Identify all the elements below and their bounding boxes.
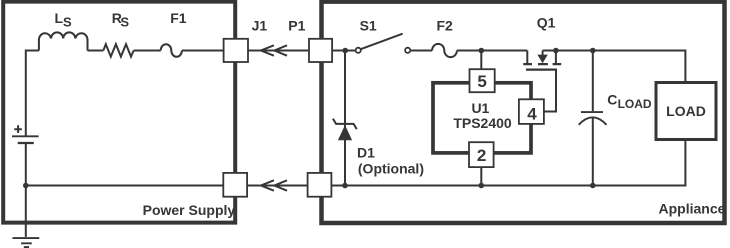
svg-text:F2: F2 — [437, 18, 454, 34]
connector J1 bottom box — [223, 173, 247, 197]
junction dot Q1 drain — [553, 48, 559, 54]
svg-text:Power Supply: Power Supply — [143, 202, 236, 218]
wire F2 to Q1 — [457, 50, 527, 52]
connector P1 bottom box — [308, 173, 332, 197]
svg-text:LOAD: LOAD — [618, 97, 652, 111]
top rail Q1 to LOAD — [543, 51, 686, 82]
svg-text:P1: P1 — [288, 18, 305, 34]
wire S1 to F2 — [410, 50, 432, 52]
svg-text:2: 2 — [477, 146, 486, 165]
transistor Q1 gate bar — [526, 68, 557, 70]
junction dot D1 bottom — [342, 183, 348, 189]
wire LS to RS — [88, 50, 104, 52]
transistor Q1 drain lead — [555, 51, 557, 64]
resistor RS — [103, 44, 133, 56]
svg-text:S1: S1 — [360, 18, 377, 34]
Power Supply enclosure — [3, 2, 235, 223]
junction dot pin5 branch — [479, 48, 485, 54]
junction dot CLOAD top — [590, 48, 596, 54]
svg-text:LOAD: LOAD — [666, 103, 706, 119]
wire top rail to CLOAD — [592, 51, 594, 112]
transistor Q1 source lead — [526, 51, 528, 64]
Appliance enclosure — [322, 2, 725, 223]
wire battery to ground — [25, 143, 27, 237]
junction dot battery bottom — [23, 183, 29, 189]
capacitor CLOAD top plate — [581, 111, 603, 113]
svg-text:F1: F1 — [170, 10, 187, 26]
connector J1 top box — [224, 39, 248, 62]
wire gate to pin 4 — [544, 70, 556, 112]
svg-text:Q1: Q1 — [537, 14, 556, 30]
ground — [13, 238, 40, 247]
battery positive plate — [12, 135, 39, 137]
fuse F1 — [161, 44, 182, 57]
wire RS to F1 — [134, 50, 161, 52]
LOAD box — [656, 83, 716, 140]
wire CLOAD to bottom rail — [592, 118, 594, 186]
pin 2 box — [469, 142, 494, 167]
junction dot D1 top — [342, 48, 348, 54]
svg-text:S: S — [120, 15, 129, 30]
arrow chevrons top — [261, 45, 287, 55]
svg-text:J1: J1 — [252, 18, 268, 34]
switch S1 right contact — [405, 48, 410, 53]
svg-text:C: C — [607, 91, 617, 107]
switch S1 left contact — [356, 48, 361, 53]
battery negative plate — [18, 142, 34, 144]
switch S1 blade — [361, 34, 403, 50]
svg-text:D1: D1 — [357, 144, 375, 160]
pin 5 box — [470, 69, 495, 92]
junction dot pin 2 — [479, 183, 485, 189]
capacitor CLOAD bottom plate — [579, 117, 607, 125]
IC U1 box — [433, 83, 531, 153]
svg-text:4: 4 — [527, 105, 537, 124]
battery plus sign — [14, 125, 22, 133]
svg-text:5: 5 — [477, 72, 486, 91]
junction dot CLOAD bottom — [590, 183, 596, 189]
arrow chevrons bottom — [261, 180, 287, 190]
inductor LS — [39, 32, 88, 50]
transistor Q1 contact feet — [523, 63, 561, 65]
svg-text:S: S — [63, 15, 72, 30]
wire to pin 5 — [480, 51, 482, 70]
svg-text:TPS2400: TPS2400 — [453, 115, 512, 131]
svg-text:U1: U1 — [471, 100, 489, 116]
bottom rail appliance — [331, 141, 685, 186]
wire J1-P1 bottom — [247, 185, 308, 187]
transistor Q1 body-diode arrow — [542, 51, 544, 55]
bottom rail power supply — [26, 185, 224, 187]
wire P1 to S1 — [332, 50, 356, 52]
wire F1 to J1 — [182, 50, 224, 52]
svg-text:Appliance: Appliance — [658, 201, 725, 217]
diode D1 triangle — [338, 125, 352, 140]
connector P1 top box — [309, 39, 332, 62]
pin 4 box — [519, 99, 544, 124]
wire pin 2 to bottom rail — [480, 167, 482, 185]
diode D1 branch wire — [344, 51, 346, 186]
fuse F2 — [432, 44, 457, 57]
svg-text:(Optional): (Optional) — [358, 160, 424, 176]
wire J1-P1 top — [248, 50, 309, 52]
diode D1 zener bar — [333, 119, 357, 130]
wire battery to inductor — [26, 51, 39, 137]
